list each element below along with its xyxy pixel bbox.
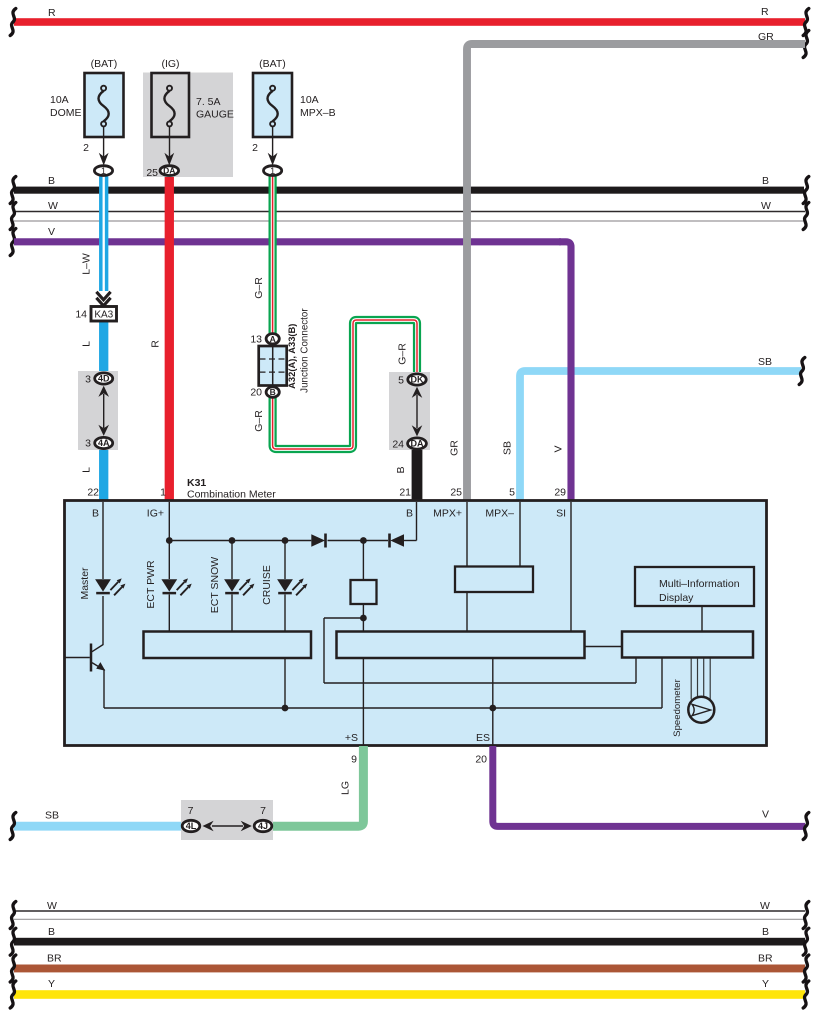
svg-text:(BAT): (BAT)	[91, 58, 118, 70]
svg-text:3: 3	[85, 374, 91, 386]
svg-text:GAUGE: GAUGE	[196, 109, 234, 121]
svg-text:B: B	[762, 926, 769, 938]
svg-text:Multi–Information: Multi–Information	[659, 578, 740, 590]
svg-text:A: A	[270, 334, 276, 344]
svg-text:R: R	[150, 340, 162, 348]
svg-text:B: B	[92, 508, 99, 520]
svg-text:4J: 4J	[258, 821, 268, 831]
svg-text:SI: SI	[556, 508, 566, 520]
svg-text:R: R	[761, 6, 769, 18]
svg-text:A32(A), A33(B): A32(A), A33(B)	[286, 324, 297, 389]
svg-text:7. 5A: 7. 5A	[196, 96, 221, 108]
svg-text:21: 21	[399, 487, 411, 499]
svg-text:SB: SB	[502, 441, 514, 455]
svg-text:K31: K31	[187, 477, 206, 489]
svg-text:5: 5	[398, 375, 404, 387]
svg-text:Speedometer: Speedometer	[672, 678, 683, 736]
svg-text:MPX–B: MPX–B	[300, 107, 336, 119]
svg-text:ES: ES	[476, 732, 490, 744]
svg-text:LG: LG	[340, 781, 352, 795]
svg-text:1: 1	[160, 487, 166, 499]
svg-text:B: B	[762, 175, 769, 187]
svg-text:Combination Meter: Combination Meter	[187, 489, 276, 501]
svg-text:DK: DK	[411, 375, 424, 385]
svg-text:DA: DA	[411, 439, 424, 449]
svg-text:SB: SB	[758, 356, 772, 368]
svg-text:G–R: G–R	[397, 343, 409, 365]
svg-text:20: 20	[250, 387, 262, 399]
svg-text:V: V	[553, 445, 565, 452]
svg-text:Y: Y	[762, 978, 769, 990]
svg-text:GR: GR	[449, 440, 461, 456]
svg-text:W: W	[47, 900, 57, 912]
svg-text:4L: 4L	[186, 821, 197, 831]
svg-text:G–R: G–R	[253, 410, 265, 432]
svg-text:Master: Master	[79, 567, 91, 600]
svg-text:(BAT): (BAT)	[259, 58, 286, 70]
svg-text:V: V	[48, 226, 55, 238]
svg-text:L: L	[81, 467, 93, 473]
svg-text:DA: DA	[163, 166, 175, 176]
svg-text:2: 2	[252, 142, 258, 154]
svg-text:R: R	[48, 7, 56, 19]
svg-text:L–W: L–W	[81, 253, 93, 275]
svg-text:9: 9	[351, 754, 357, 766]
svg-text:14: 14	[75, 309, 87, 321]
svg-text:22: 22	[87, 487, 99, 499]
svg-text:BR: BR	[47, 953, 62, 965]
svg-text:Display: Display	[659, 592, 694, 604]
svg-text:ECT SNOW: ECT SNOW	[209, 557, 221, 613]
svg-text:CRUISE: CRUISE	[261, 565, 273, 605]
svg-text:IG+: IG+	[147, 508, 164, 520]
svg-text:24: 24	[392, 439, 404, 451]
svg-text:W: W	[760, 900, 770, 912]
svg-text:B: B	[270, 387, 276, 397]
svg-text:29: 29	[554, 487, 566, 499]
svg-text:B: B	[395, 466, 407, 473]
svg-text:Y: Y	[48, 978, 55, 990]
svg-text:10A: 10A	[50, 94, 69, 106]
svg-text:5: 5	[509, 487, 515, 499]
svg-text:B: B	[48, 175, 55, 187]
svg-text:(IG): (IG)	[161, 58, 179, 70]
svg-text:BR: BR	[758, 953, 773, 965]
svg-text:3: 3	[85, 438, 91, 450]
svg-text:1: 1	[270, 166, 275, 176]
svg-text:25: 25	[450, 487, 462, 499]
svg-text:Junction Connector: Junction Connector	[300, 308, 311, 393]
svg-text:4D: 4D	[98, 374, 110, 384]
svg-text:MPX–: MPX–	[485, 508, 514, 520]
svg-text:W: W	[48, 200, 58, 212]
svg-text:7: 7	[188, 805, 194, 817]
svg-text:10A: 10A	[300, 94, 319, 106]
svg-text:+S: +S	[345, 732, 358, 744]
svg-text:B: B	[48, 926, 55, 938]
svg-text:MPX+: MPX+	[433, 508, 462, 520]
svg-text:B: B	[406, 508, 413, 520]
svg-text:13: 13	[250, 334, 262, 346]
svg-text:1: 1	[101, 166, 106, 176]
svg-text:W: W	[761, 200, 771, 212]
svg-text:L: L	[81, 341, 93, 347]
svg-text:DOME: DOME	[50, 107, 82, 119]
svg-text:20: 20	[475, 754, 487, 766]
svg-text:25: 25	[146, 167, 158, 179]
svg-text:4A: 4A	[98, 438, 110, 448]
svg-text:SB: SB	[45, 810, 59, 822]
svg-text:G–R: G–R	[253, 277, 265, 299]
svg-text:KA3: KA3	[94, 309, 113, 320]
svg-text:2: 2	[83, 142, 89, 154]
svg-text:V: V	[762, 809, 769, 821]
svg-text:ECT PWR: ECT PWR	[145, 560, 157, 609]
svg-text:7: 7	[260, 805, 266, 817]
